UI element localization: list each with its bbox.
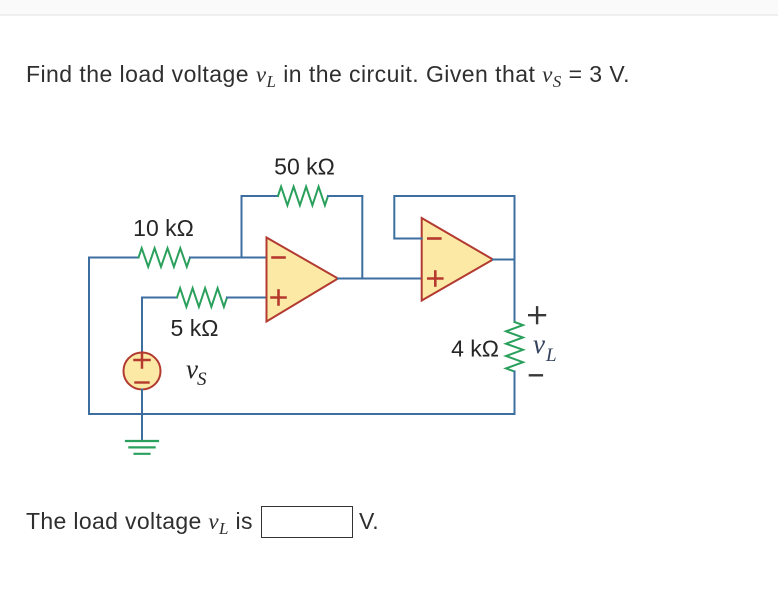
wire: left input vertical rail	[88, 258, 90, 415]
op-amp U1	[267, 238, 339, 322]
U1 inverting pin mark	[273, 256, 285, 259]
svg-text:5 kΩ: 5 kΩ	[171, 315, 219, 341]
wire: 50k left lead	[242, 195, 279, 197]
wire: load top lead	[514, 260, 516, 323]
op-amp U2	[422, 218, 493, 301]
wire: bottom ground rail	[89, 413, 515, 415]
vL plus polarity mark	[529, 307, 545, 323]
svg-text:v: v	[533, 329, 545, 359]
wire: 10k left lead	[89, 257, 139, 259]
VS plus mark	[135, 353, 150, 368]
wire: 5k right lead to noninverting input	[227, 297, 267, 299]
wire: feedback right vertical drop to U1 output	[361, 196, 363, 279]
svg-text:S: S	[197, 369, 207, 390]
wire: load bottom lead	[514, 372, 516, 415]
VS minus mark	[136, 381, 149, 383]
resistor R2 50 kOhm feedback	[278, 187, 328, 206]
svg-text:4 kΩ: 4 kΩ	[451, 336, 499, 362]
wire: 5k input vertical from source	[141, 298, 143, 353]
vL minus polarity mark	[530, 374, 542, 376]
top toolbar strip	[0, 0, 778, 16]
svg-text:10 kΩ: 10 kΩ	[133, 215, 194, 241]
units V.	[359, 510, 379, 533]
question text	[26, 63, 630, 90]
wire: 50k right lead	[328, 195, 362, 197]
answer input box	[261, 506, 353, 538]
ground	[141, 414, 143, 441]
U2 inverting pin mark	[428, 237, 440, 240]
voltage source VS	[124, 353, 161, 390]
svg-text:50 kΩ: 50 kΩ	[274, 154, 335, 180]
wire: 5k left lead	[142, 297, 177, 299]
wire: source bottom lead	[141, 390, 143, 415]
U2 noninverting pin mark	[428, 272, 442, 286]
svg-text:L: L	[545, 345, 557, 366]
resistor R4 4 kOhm load	[506, 322, 523, 372]
wire: U1 output to U2 noninverting input	[338, 278, 422, 280]
wire: feedback left vertical riser	[241, 196, 243, 258]
resistor R1 10 kOhm	[139, 248, 191, 267]
wire: U2 feedback loop to inverting input	[394, 196, 514, 260]
wire: 10k right lead to inverting input	[190, 257, 267, 259]
resistor R3 5 kOhm	[177, 288, 227, 307]
wire: U2 output lead	[493, 259, 515, 261]
answer sentence	[26, 510, 253, 537]
U1 noninverting pin mark	[272, 291, 286, 305]
